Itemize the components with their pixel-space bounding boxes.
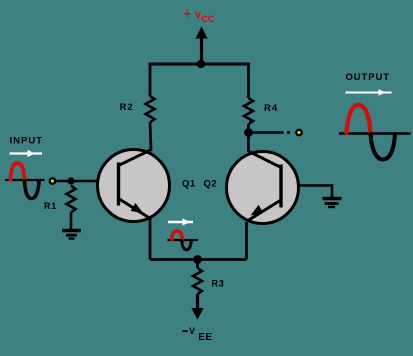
- svg-text:R1: R1: [44, 201, 57, 211]
- emitter arrow (white) between transistors: [168, 218, 193, 225]
- node junction dot output tap: [244, 128, 253, 137]
- resistor R2: [146, 96, 155, 123]
- wire input to Q1 base: [57, 180, 119, 183]
- +Vcc supply arrow: [196, 27, 208, 65]
- wire R3 junction: [196, 260, 199, 269]
- svg-text:R4: R4: [264, 103, 278, 114]
- label +Vcc: [184, 7, 215, 24]
- svg-text:Q2: Q2: [204, 179, 218, 190]
- input arrow (white): [10, 150, 43, 158]
- output waveform black negative half: [371, 134, 396, 160]
- svg-text:OUTPUT: OUTPUT: [346, 72, 390, 83]
- svg-text:EE: EE: [198, 332, 212, 343]
- wire Q1 emitter down: [149, 218, 152, 260]
- ground (left): [62, 231, 81, 239]
- output waveform red positive half: [347, 105, 371, 133]
- -Vee supply arrow: [191, 294, 203, 320]
- wire Q2 base to ground: [299, 184, 333, 198]
- wire Q2 emitter down: [245, 222, 248, 260]
- svg-text:+: +: [184, 7, 191, 21]
- emitter waveform red positive half: [172, 231, 182, 240]
- output waveform axis: [339, 132, 411, 134]
- wire R1 to ground: [70, 213, 73, 230]
- transistor Q2: [227, 152, 299, 224]
- svg-text:INPUT: INPUT: [10, 136, 44, 147]
- wire top rail: [150, 63, 249, 66]
- wire R2 to Q1 collector: [150, 123, 151, 151]
- wire output tap: [249, 131, 291, 134]
- wire right drop from rail to R4: [247, 63, 250, 99]
- emitter waveform axis: [168, 239, 199, 241]
- input waveform axis: [5, 179, 45, 181]
- wire R4 to Q2 collector: [247, 124, 250, 152]
- node junction dot R3: [193, 255, 202, 264]
- node output terminal: [296, 130, 301, 135]
- resistor R1: [67, 186, 76, 213]
- label -Vee: [183, 326, 213, 343]
- node junction dot at Vcc rail: [197, 60, 205, 68]
- wire left drop from rail to R2: [149, 63, 152, 97]
- svg-text:R3: R3: [212, 279, 225, 289]
- output arrow (white): [346, 89, 392, 96]
- emitter waveform black negative half: [182, 241, 191, 250]
- svg-text:V: V: [189, 326, 195, 336]
- transistor Q1: [98, 150, 170, 222]
- node junction dot R1: [67, 177, 74, 184]
- input waveform black negative half: [25, 181, 40, 199]
- svg-text:R2: R2: [120, 102, 134, 113]
- svg-text:CC: CC: [201, 14, 214, 24]
- resistor R4: [244, 98, 253, 124]
- node input terminal: [50, 178, 55, 183]
- ground (right): [323, 199, 342, 208]
- wire bottom emitter rail: [150, 258, 246, 261]
- resistor R3: [193, 268, 202, 294]
- input waveform red positive half: [11, 163, 25, 180]
- svg-text:Q1: Q1: [182, 179, 196, 190]
